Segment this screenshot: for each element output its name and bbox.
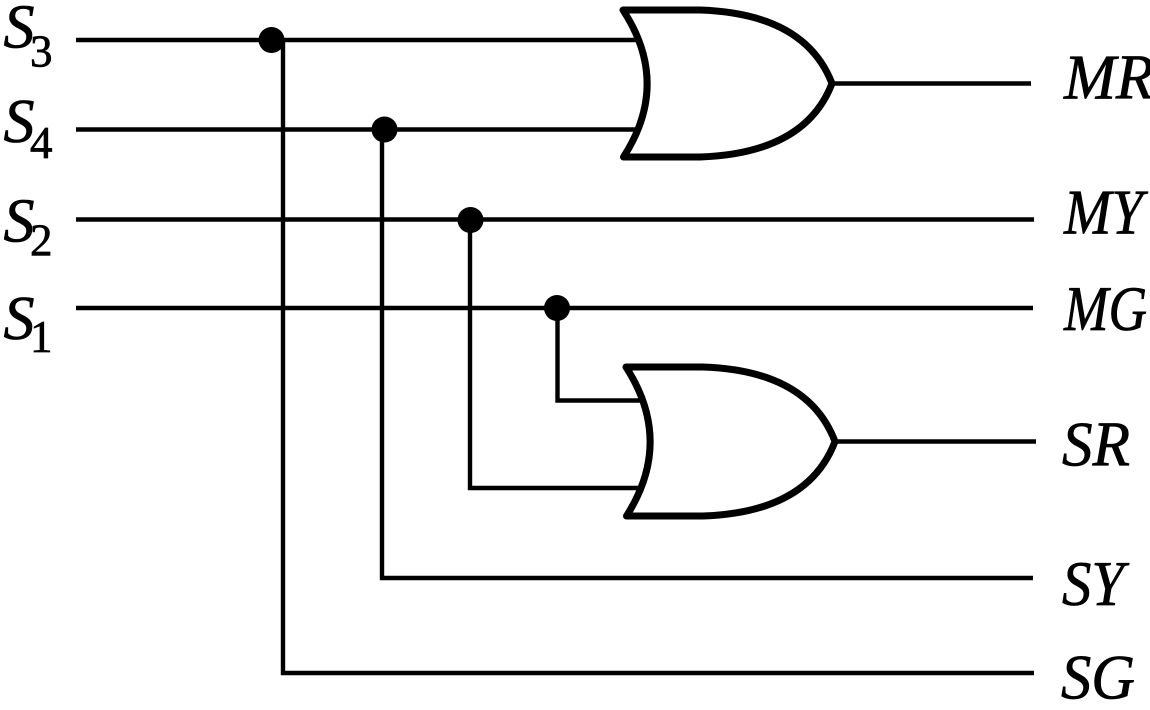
svg-text:MG: MG [1063,273,1147,344]
svg-text:SR: SR [1062,409,1130,480]
svg-text:3: 3 [30,27,53,77]
wire MR output [830,81,1031,85]
svg-text:2: 2 [30,216,53,266]
wire from S3 junction down to SG [283,40,1034,673]
wire SR output [834,439,1036,443]
wire S1 to MG [76,306,1033,310]
junction dot on S3 [259,27,285,53]
svg-text:MR: MR [1063,42,1150,113]
svg-text:SY: SY [1062,548,1130,619]
junction dot on S2 [458,207,484,233]
junction dot on S4 [372,117,398,143]
wire from S4 junction down to SY [382,130,1033,579]
wire S4 horizontal [76,127,640,131]
or-gate U1 [623,10,832,157]
wire S2 to MY [76,217,1034,221]
junction dot on S1 [544,295,570,321]
svg-text:1: 1 [30,312,53,362]
or-gate U2 [626,367,835,516]
wire from S2 junction down to OR gate U2 lower input [470,220,640,489]
wire S3 horizontal [76,38,640,42]
wire from S1 junction down to OR gate U2 upper input [558,308,641,401]
svg-text:4: 4 [30,118,53,168]
svg-text:SG: SG [1061,642,1135,710]
svg-text:MY: MY [1063,177,1149,248]
